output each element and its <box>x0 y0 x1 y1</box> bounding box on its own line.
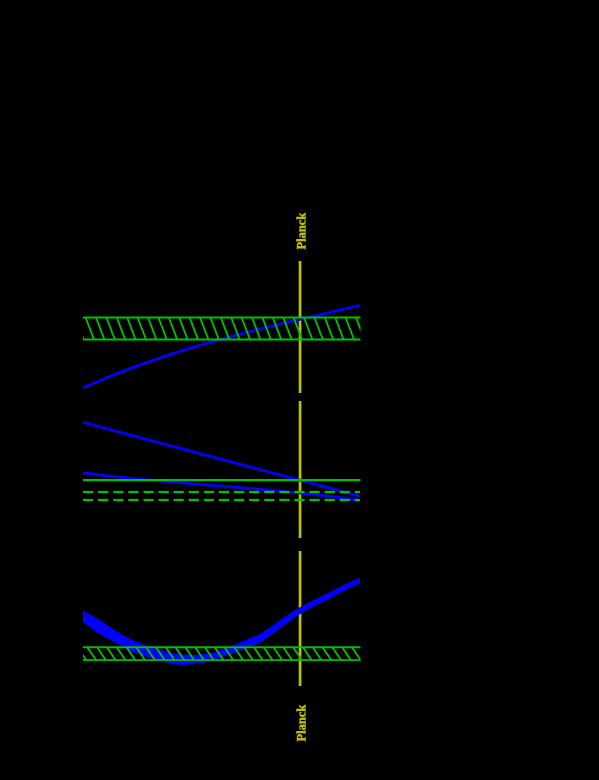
green bottom hatched band: bottom border <box>83 659 361 661</box>
green solid middle line <box>83 479 361 481</box>
green dashed line 2 <box>83 499 360 501</box>
green top hatched band: hatch strokes <box>75 317 364 340</box>
green dashed line 1 <box>83 491 360 493</box>
blue middle lower line <box>83 473 360 501</box>
green bottom hatched band: hatch strokes <box>77 647 370 660</box>
blue middle upper line <box>83 422 360 496</box>
yellow Planck vertical line segment 3 <box>299 551 302 686</box>
blue bottom band <box>83 578 360 665</box>
yellow Planck vertical line segment 2 <box>299 401 302 538</box>
blue top curve <box>83 305 360 388</box>
green top hatched band: top border <box>83 317 361 319</box>
yellow Planck vertical line segment 1 <box>299 261 302 393</box>
green bottom hatched band: top border <box>83 646 361 648</box>
green top hatched band: bottom border <box>83 339 361 341</box>
svg-text:Planck: Planck <box>295 705 309 742</box>
svg-text:Planck: Planck <box>295 213 309 250</box>
